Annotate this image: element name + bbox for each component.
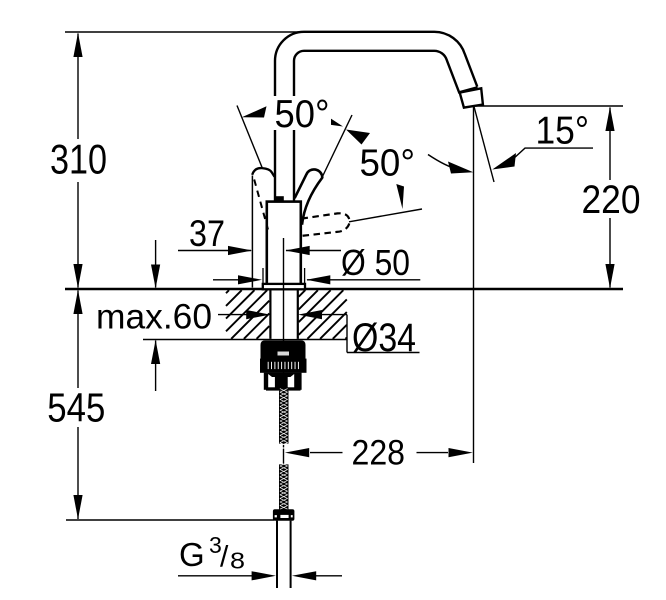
dimension 310 line <box>77 34 79 288</box>
faucet body <box>267 202 301 286</box>
svg-text:50°: 50° <box>275 93 330 136</box>
flange extension line right <box>304 268 306 284</box>
lever axis line (vertical position) <box>237 106 263 169</box>
countertop hatch <box>226 290 347 339</box>
mounting bracket <box>264 373 302 391</box>
svg-text:310: 310 <box>50 136 107 183</box>
left dashed lever cap <box>252 168 274 177</box>
svg-text:/: / <box>220 541 229 574</box>
svg-text:8: 8 <box>230 548 245 574</box>
dimension D34 <box>218 315 420 353</box>
angle 50 bowtie arrow upper <box>319 111 344 127</box>
swivel arc 50 <box>428 155 458 170</box>
svg-text:220: 220 <box>582 178 641 222</box>
angle 50 arrow left <box>242 106 267 117</box>
dimension D50 <box>213 279 420 281</box>
right dashed lever (open position) <box>302 213 350 236</box>
left dashed lever edge (dashed) <box>254 180 268 230</box>
dimension 545 line <box>77 291 79 520</box>
swivel arc arrowhead <box>448 162 473 174</box>
shank (under-counter tube) <box>270 290 297 339</box>
lever back nub <box>275 196 284 202</box>
svg-text:545: 545 <box>47 384 105 430</box>
mounting nut body <box>261 340 306 359</box>
flange extension line left <box>262 268 264 284</box>
braided hose upper segment <box>279 389 289 450</box>
counter bottom line <box>143 339 347 341</box>
svg-text:G: G <box>179 536 205 573</box>
svg-text:37: 37 <box>189 213 225 254</box>
angle 15 leader <box>512 148 593 160</box>
braided hose lower segment <box>279 462 289 516</box>
spout tube <box>285 41 469 203</box>
svg-text:max.60: max.60 <box>96 298 212 337</box>
base flange <box>263 284 305 289</box>
aerator (spout outlet piece) <box>460 88 483 107</box>
mounting nut slotted ring <box>260 359 307 373</box>
svg-text:Ø 50: Ø 50 <box>341 242 410 283</box>
label 50 deg (vertical-closed) <box>272 93 331 136</box>
svg-text:50°: 50° <box>360 143 416 185</box>
handle lever (solid, closed position) <box>295 169 323 224</box>
dimension 228 <box>310 452 448 454</box>
center line <box>283 238 285 465</box>
hose end nut <box>273 509 295 520</box>
dimension 220 line <box>609 108 611 288</box>
lever axis line (closed position) <box>323 115 353 177</box>
spout joint line <box>459 87 477 92</box>
lever axis line (open position) <box>349 209 422 222</box>
dimension 228 extension line <box>473 106 475 463</box>
svg-text:15°: 15° <box>536 109 590 152</box>
angle 15 reference line <box>474 107 494 183</box>
dimension 37 <box>178 250 341 252</box>
svg-text:Ø34: Ø34 <box>352 316 416 360</box>
svg-text:228: 228 <box>352 434 406 473</box>
outlet level reference line <box>476 105 623 107</box>
countertop line <box>65 288 623 290</box>
label G 3/8 <box>179 532 245 574</box>
G3/8 connection tube <box>276 521 278 588</box>
angle 15 leader arrowhead <box>492 153 516 170</box>
dimension G3/8 <box>178 575 342 577</box>
dimension 545 base line <box>66 519 274 521</box>
angle 50 down arrow <box>396 184 404 209</box>
left lever/37 extension line <box>251 176 253 288</box>
dimension 310 top reference line <box>65 31 438 33</box>
dimension max60 arrows <box>155 240 157 391</box>
angle 50 bowtie arrow lower <box>346 130 370 145</box>
